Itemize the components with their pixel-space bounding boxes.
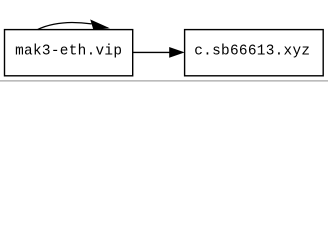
edge mak3-eth.vip to c.sb66613.xyz arrowhead (170, 48, 184, 57)
node mak3-eth.vip box (5, 30, 133, 76)
self-loop edge on mak3-eth.vip arrowhead (91, 20, 108, 29)
bottom separator line (0, 80, 328, 81)
svg-text:c.sb66613.xyz: c.sb66613.xyz (194, 44, 310, 60)
edge mak3-eth.vip to c.sb66613.xyz wire (133, 51, 171, 53)
node c.sb66613.xyz box (185, 30, 324, 76)
svg-text:mak3-eth.vip: mak3-eth.vip (15, 44, 122, 60)
self-loop edge on mak3-eth.vip wire (38, 23, 92, 30)
